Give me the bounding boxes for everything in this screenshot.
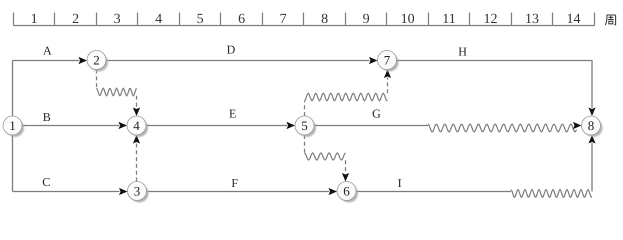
svg-text:5: 5 xyxy=(197,12,204,27)
svg-text:4: 4 xyxy=(155,12,162,27)
svg-text:3: 3 xyxy=(134,183,141,198)
svg-text:7: 7 xyxy=(280,12,287,27)
svg-text:H: H xyxy=(458,45,467,59)
svg-text:11: 11 xyxy=(442,12,455,27)
svg-text:3: 3 xyxy=(114,12,121,27)
svg-text:D: D xyxy=(227,43,236,57)
svg-text:A: A xyxy=(43,44,52,58)
svg-text:1: 1 xyxy=(9,118,16,133)
svg-text:B: B xyxy=(43,110,51,124)
svg-text:10: 10 xyxy=(401,12,415,27)
svg-text:9: 9 xyxy=(363,12,370,27)
svg-text:2: 2 xyxy=(93,52,100,67)
svg-text:6: 6 xyxy=(343,183,350,198)
svg-text:14: 14 xyxy=(567,12,581,27)
svg-text:G: G xyxy=(372,107,381,121)
svg-text:1: 1 xyxy=(31,12,38,27)
svg-text:F: F xyxy=(231,176,238,190)
svg-text:2: 2 xyxy=(72,12,79,27)
svg-text:6: 6 xyxy=(238,12,245,27)
svg-text:C: C xyxy=(42,175,50,189)
svg-text:8: 8 xyxy=(588,118,595,133)
svg-text:4: 4 xyxy=(133,118,140,133)
svg-text:12: 12 xyxy=(484,12,498,27)
svg-text:7: 7 xyxy=(384,52,391,67)
svg-text:5: 5 xyxy=(301,118,308,133)
svg-text:E: E xyxy=(229,107,236,121)
svg-text:13: 13 xyxy=(525,12,539,27)
svg-text:8: 8 xyxy=(321,12,328,27)
svg-text:I: I xyxy=(398,176,402,190)
